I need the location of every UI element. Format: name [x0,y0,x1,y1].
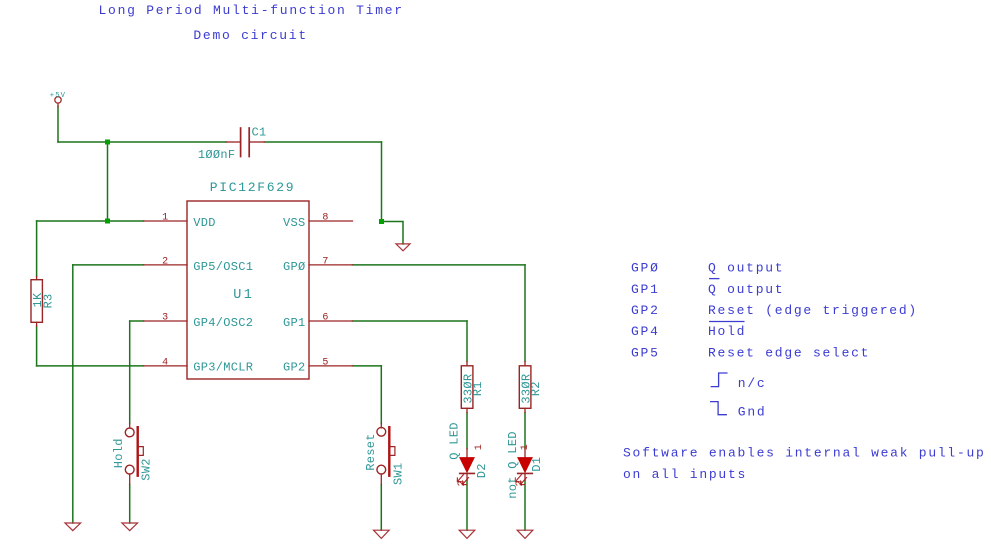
capacitor C1 [226,128,264,157]
ground GP5 net [65,523,81,531]
switch SW2 [125,424,143,485]
svg-text:Q output: Q output [708,282,784,297]
svg-text:Gnd: Gnd [738,405,767,420]
svg-text:D1: D1 [530,457,544,472]
svg-text:n/c: n/c [738,376,767,391]
wire pin 2 to ground [72,265,74,523]
svg-text:GP4/OSC2: GP4/OSC2 [193,316,253,330]
svg-text:on all inputs: on all inputs [623,467,747,482]
svg-text:SW1: SW1 [392,462,406,485]
svg-text:GPØ: GPØ [631,261,660,276]
svg-text:Software enables internal weak: Software enables internal weak pull-up [623,445,986,460]
wire pin 3 to SW2 [129,321,131,424]
LED D1 [515,449,532,485]
pin 6 stub [309,320,353,322]
wire pin 5 to SW1 [380,366,382,424]
pin 5 stub [309,365,353,367]
svg-text:1ØØnF: 1ØØnF [198,148,236,162]
wire R2 to D1 [524,413,526,449]
symbol falling edge [711,402,727,415]
wire pin 7 horizontal [353,264,526,266]
wire +5V drop [57,106,59,142]
wire C1 to VSS node [381,142,383,222]
svg-text:GP1: GP1 [283,316,306,330]
svg-text:Reset edge select: Reset edge select [708,345,870,360]
svg-text:Q LED: Q LED [448,422,462,460]
wire D1 to ground [524,480,526,530]
wire pin 5 horizontal [353,365,382,367]
svg-text:SW2: SW2 [140,458,154,481]
wire R3 bottom [36,326,38,366]
svg-text:2: 2 [457,480,468,486]
svg-text:VSS: VSS [283,216,306,230]
svg-text:Reset: Reset [364,433,378,471]
svg-text:GP2: GP2 [283,361,306,375]
wire pin 6 horizontal [353,320,468,322]
pin 4 stub [144,365,188,367]
ground D1 [517,530,533,538]
svg-text:Q output: Q output [708,261,784,276]
svg-text:D2: D2 [475,463,489,478]
svg-text:GP5/OSC1: GP5/OSC1 [193,260,253,274]
wire top rail left [58,141,226,143]
svg-text:R3: R3 [41,293,55,308]
wire SW2 to ground [129,485,131,524]
wire VDD rail [37,220,144,222]
wire pin 3 horizontal [130,320,144,322]
svg-text:Demo circuit: Demo circuit [193,28,308,43]
wire rail to VDD node [107,142,109,221]
switch SW1 [377,424,395,485]
svg-text:GP3/MCLR: GP3/MCLR [193,361,253,375]
svg-text:5: 5 [322,358,328,369]
svg-text:U1: U1 [233,288,254,303]
wire pin 2 horizontal [73,264,144,266]
pin 1 stub [144,220,188,222]
svg-text:+5V: +5V [50,92,66,100]
svg-text:GPØ: GPØ [283,260,306,274]
ground SW2 [122,523,138,531]
svg-text:GP5: GP5 [631,345,660,360]
junction top rail [105,140,110,145]
svg-text:R2: R2 [529,381,543,396]
wire top rail right of C1 [264,141,381,143]
svg-text:2: 2 [162,257,168,268]
svg-text:PIC12F629: PIC12F629 [210,180,296,195]
wire pin 6 to R1 [466,321,468,362]
wire R3 to pin 4 [37,365,144,367]
svg-text:GP1: GP1 [631,282,660,297]
junction VSS node [379,219,384,224]
symbol rising edge [711,373,727,387]
svg-text:8: 8 [322,213,328,224]
svg-text:Hold: Hold [708,324,746,339]
wire R1 to D2 [466,413,468,449]
svg-text:Reset (edge triggered): Reset (edge triggered) [708,303,918,318]
resistor R2 [519,362,531,413]
svg-text:C1: C1 [252,126,267,140]
wire VDD to R3 top [36,221,38,277]
pin 8 stub [309,220,353,222]
svg-text:GP2: GP2 [631,303,660,318]
svg-text:1: 1 [474,444,485,450]
svg-text:not Q LED: not Q LED [506,431,520,499]
pin 7 stub [309,264,353,266]
svg-text:VDD: VDD [193,216,216,230]
svg-text:6: 6 [322,313,328,324]
resistor R3 [31,277,42,327]
ground SW1 [374,530,390,538]
wire D2 to ground [466,480,468,530]
wire pin 7 to R2 [524,265,526,362]
pin 3 stub [144,320,188,322]
svg-text:GP4: GP4 [631,324,660,339]
svg-text:3: 3 [162,313,168,324]
svg-text:1: 1 [520,444,531,450]
svg-text:Long Period Multi-function Tim: Long Period Multi-function Timer [99,3,404,18]
svg-text:Hold: Hold [112,438,126,468]
ground VSS [396,244,410,251]
wire VSS node to ground [382,222,404,245]
wire SW1 to ground [380,485,382,531]
resistor R1 [461,362,473,413]
svg-text:7: 7 [322,257,328,268]
junction VDD node [105,219,110,224]
svg-text:4: 4 [162,358,168,369]
ground D2 [459,530,475,538]
svg-text:1: 1 [162,213,168,224]
op-amp U1 body (PIC12F629 IC) [187,201,309,379]
LED D2 [457,449,474,485]
pin 2 stub [144,264,188,266]
power +5V [50,92,66,107]
svg-text:R1: R1 [471,381,485,396]
